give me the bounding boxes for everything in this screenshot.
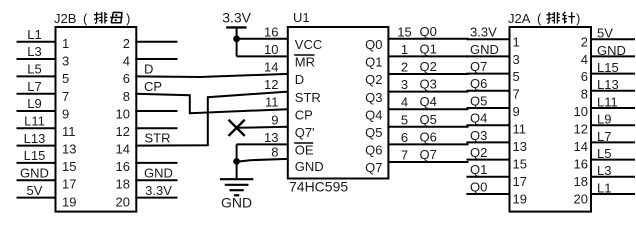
svg-text:L7: L7 bbox=[27, 79, 41, 94]
svg-text:3.3V: 3.3V bbox=[145, 183, 172, 198]
svg-text:5: 5 bbox=[513, 69, 520, 84]
svg-text:L9: L9 bbox=[597, 112, 611, 127]
svg-text:Q6: Q6 bbox=[365, 143, 382, 158]
svg-text:20: 20 bbox=[574, 191, 588, 206]
svg-text:13: 13 bbox=[62, 142, 76, 157]
svg-text:GND: GND bbox=[597, 43, 626, 58]
svg-text:Q4: Q4 bbox=[420, 94, 437, 109]
svg-text:9: 9 bbox=[62, 106, 69, 121]
svg-text:7: 7 bbox=[62, 89, 69, 104]
svg-text:L15: L15 bbox=[24, 148, 46, 163]
svg-text:17: 17 bbox=[513, 174, 527, 189]
svg-text:5V: 5V bbox=[597, 26, 613, 41]
svg-text:74HC595: 74HC595 bbox=[289, 178, 348, 194]
svg-text:11: 11 bbox=[62, 124, 76, 139]
svg-text:18: 18 bbox=[574, 174, 588, 189]
svg-text:1: 1 bbox=[62, 36, 69, 51]
svg-text:8: 8 bbox=[271, 145, 278, 160]
svg-text:Q5: Q5 bbox=[470, 93, 487, 108]
svg-text:3.3V: 3.3V bbox=[222, 9, 251, 25]
svg-text:Q3: Q3 bbox=[420, 77, 437, 92]
svg-text:Q0: Q0 bbox=[470, 179, 487, 194]
svg-text:10: 10 bbox=[116, 106, 130, 121]
svg-text:20: 20 bbox=[116, 194, 130, 209]
svg-text:Q7: Q7 bbox=[470, 59, 487, 74]
svg-text:8: 8 bbox=[123, 89, 130, 104]
svg-text:L1: L1 bbox=[27, 27, 41, 42]
svg-text:3: 3 bbox=[62, 54, 69, 69]
svg-text:18: 18 bbox=[116, 177, 130, 192]
svg-text:15: 15 bbox=[62, 159, 76, 174]
svg-text:Q5: Q5 bbox=[420, 112, 437, 127]
svg-text:L11: L11 bbox=[597, 94, 618, 109]
svg-text:17: 17 bbox=[62, 177, 76, 192]
svg-text:Q4: Q4 bbox=[365, 107, 382, 122]
svg-text:3: 3 bbox=[513, 52, 520, 67]
svg-text:Q6: Q6 bbox=[470, 76, 487, 91]
svg-text:Q1: Q1 bbox=[420, 41, 437, 56]
svg-text:Q7: Q7 bbox=[365, 160, 382, 175]
svg-text:15: 15 bbox=[397, 24, 411, 39]
svg-text:OE: OE bbox=[295, 143, 314, 158]
svg-text:10: 10 bbox=[264, 42, 278, 57]
svg-text:CP: CP bbox=[144, 79, 162, 94]
svg-text:4: 4 bbox=[401, 95, 408, 110]
svg-text:4: 4 bbox=[581, 52, 588, 67]
svg-text:6: 6 bbox=[581, 69, 588, 84]
svg-text:12: 12 bbox=[116, 124, 130, 139]
svg-text:11: 11 bbox=[265, 95, 279, 110]
svg-text:CP: CP bbox=[295, 107, 313, 122]
svg-text:11: 11 bbox=[513, 122, 527, 137]
svg-text:16: 16 bbox=[264, 24, 278, 39]
svg-text:7: 7 bbox=[401, 148, 408, 163]
svg-text:Q0: Q0 bbox=[365, 37, 382, 52]
svg-text:Q3: Q3 bbox=[365, 90, 382, 105]
svg-text:Q2: Q2 bbox=[420, 59, 437, 74]
svg-text:1: 1 bbox=[513, 34, 520, 49]
svg-text:L3: L3 bbox=[27, 44, 41, 59]
svg-text:Q2: Q2 bbox=[365, 72, 382, 87]
svg-text:14: 14 bbox=[574, 139, 588, 154]
svg-text:2: 2 bbox=[581, 34, 588, 49]
svg-text:2: 2 bbox=[401, 60, 408, 75]
svg-text:J2B: J2B bbox=[54, 11, 76, 26]
svg-text:Q0: Q0 bbox=[420, 24, 437, 39]
svg-text:VCC: VCC bbox=[295, 37, 322, 52]
svg-text:4: 4 bbox=[123, 54, 130, 69]
svg-text:Q2: Q2 bbox=[470, 145, 487, 160]
svg-text:MR: MR bbox=[295, 55, 315, 70]
svg-text:15: 15 bbox=[513, 156, 527, 171]
svg-text:Q5: Q5 bbox=[365, 125, 382, 140]
svg-text:L13: L13 bbox=[597, 77, 619, 92]
svg-text:8: 8 bbox=[581, 87, 588, 102]
svg-text:D: D bbox=[144, 62, 153, 77]
svg-text:13: 13 bbox=[513, 139, 527, 154]
svg-text:7: 7 bbox=[513, 87, 520, 102]
svg-text:GND: GND bbox=[20, 166, 49, 181]
svg-text:Q7: Q7 bbox=[420, 147, 437, 162]
svg-text:L15: L15 bbox=[597, 60, 619, 75]
svg-text:14: 14 bbox=[264, 60, 278, 75]
svg-text:L1: L1 bbox=[597, 180, 611, 195]
svg-text:L11: L11 bbox=[24, 114, 45, 129]
svg-text:STR: STR bbox=[145, 131, 171, 146]
svg-text:J2A: J2A bbox=[508, 11, 531, 26]
svg-text:L13: L13 bbox=[24, 131, 46, 146]
svg-text:13: 13 bbox=[264, 130, 278, 145]
svg-text:GND: GND bbox=[144, 166, 173, 181]
svg-text:GND: GND bbox=[221, 195, 252, 211]
svg-text:Q6: Q6 bbox=[420, 129, 437, 144]
svg-text:19: 19 bbox=[62, 194, 76, 209]
svg-text:5V: 5V bbox=[27, 183, 43, 198]
svg-text:1: 1 bbox=[401, 42, 408, 57]
svg-text:12: 12 bbox=[264, 77, 278, 92]
svg-text:STR: STR bbox=[295, 90, 321, 105]
svg-text:16: 16 bbox=[116, 159, 130, 174]
svg-text:9: 9 bbox=[271, 112, 278, 127]
svg-text:L9: L9 bbox=[27, 96, 41, 111]
svg-text:): ) bbox=[576, 11, 580, 26]
svg-text:14: 14 bbox=[116, 142, 130, 157]
svg-text:(: ( bbox=[83, 11, 88, 26]
svg-text:5: 5 bbox=[401, 112, 408, 127]
svg-text:D: D bbox=[295, 72, 304, 87]
svg-text:6: 6 bbox=[401, 130, 408, 145]
svg-text:9: 9 bbox=[513, 104, 520, 119]
svg-text:Q7': Q7' bbox=[295, 125, 315, 140]
svg-text:16: 16 bbox=[574, 156, 588, 171]
svg-text:L5: L5 bbox=[597, 146, 611, 161]
svg-text:3.3V: 3.3V bbox=[470, 25, 497, 40]
svg-text:Q4: Q4 bbox=[470, 111, 487, 126]
svg-text:L7: L7 bbox=[597, 129, 611, 144]
svg-text:5: 5 bbox=[62, 71, 69, 86]
svg-text:(: ( bbox=[537, 11, 542, 26]
svg-text:Q1: Q1 bbox=[365, 55, 382, 70]
svg-text:L5: L5 bbox=[27, 62, 41, 77]
svg-text:2: 2 bbox=[123, 36, 130, 51]
svg-text:U1: U1 bbox=[293, 10, 310, 25]
svg-text:19: 19 bbox=[513, 191, 527, 206]
svg-text:L3: L3 bbox=[597, 163, 611, 178]
svg-text:Q3: Q3 bbox=[470, 128, 487, 143]
svg-text:12: 12 bbox=[574, 122, 588, 137]
svg-text:3: 3 bbox=[401, 77, 408, 92]
svg-text:6: 6 bbox=[123, 71, 130, 86]
svg-text:10: 10 bbox=[574, 104, 588, 119]
svg-text:Q1: Q1 bbox=[470, 162, 487, 177]
svg-text:GND: GND bbox=[295, 159, 324, 174]
svg-text:): ) bbox=[126, 11, 130, 26]
svg-text:GND: GND bbox=[470, 42, 499, 57]
